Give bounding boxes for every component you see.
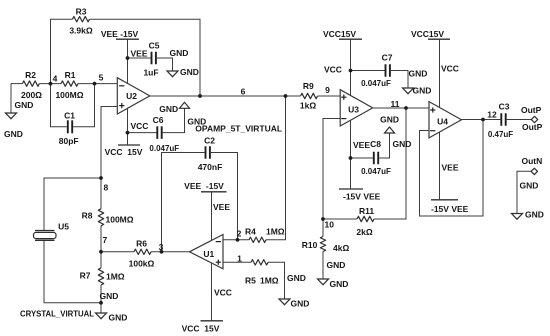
svg-text:U1: U1 (203, 249, 214, 259)
svg-text:GND: GND (15, 100, 34, 110)
wire U4 feedback loop (420, 120, 484, 217)
capacitor C5 (143, 41, 172, 78)
node 1 (237, 253, 242, 263)
svg-text:100MΩ: 100MΩ (106, 215, 134, 225)
capacitor C6 (149, 108, 184, 153)
op-amp U2 (117, 78, 150, 114)
resistor R3 (69, 7, 93, 36)
svg-text:GND: GND (393, 139, 412, 149)
svg-text:VEE: VEE (131, 48, 148, 58)
wire U3 - input to node 10 (323, 119, 340, 220)
node 6 (198, 87, 287, 98)
svg-text:VCC15V: VCC15V (411, 29, 444, 39)
svg-text:R2: R2 (25, 70, 36, 80)
svg-text:9: 9 (325, 85, 330, 95)
svg-text:GND: GND (525, 210, 544, 220)
svg-text:R11: R11 (359, 206, 374, 216)
node 4 (49, 74, 58, 86)
svg-text:12: 12 (487, 109, 497, 119)
svg-text:R8: R8 (82, 210, 93, 220)
op-amp U1 (left-pointing) (190, 235, 224, 269)
svg-text:VCC15V: VCC15V (323, 29, 356, 39)
wire node2 R4 to node6 (223, 96, 286, 240)
svg-text:10: 10 (325, 219, 335, 229)
svg-text:GND: GND (4, 129, 23, 139)
svg-text:U2: U2 (126, 91, 137, 101)
resistor R5 (245, 260, 279, 286)
wire R11 feedback (323, 108, 406, 219)
wire U3 output node 11 (372, 107, 429, 109)
svg-text:GND: GND (109, 313, 128, 323)
label OPAMP_5T_VIRTUAL (195, 123, 282, 133)
svg-text:80pF: 80pF (59, 136, 79, 146)
resistor R1 (55, 70, 83, 100)
ground at C5 (167, 48, 199, 77)
svg-text:C6: C6 (153, 115, 164, 125)
svg-text:6: 6 (241, 87, 246, 97)
capacitor C3 (488, 102, 513, 139)
wire node1 R5 to ground (223, 262, 285, 299)
power rail VEE -15V for U1 (184, 181, 230, 242)
svg-text:11: 11 (391, 99, 400, 109)
capacitor C1 (59, 111, 79, 146)
ground at C7 (403, 69, 432, 96)
resistor R9 (300, 81, 318, 111)
svg-text:U3: U3 (348, 105, 359, 115)
svg-text:C1: C1 (64, 111, 75, 121)
svg-text:VEE: VEE (353, 140, 370, 150)
ground at R5 (279, 273, 309, 309)
resistor R10 (302, 237, 350, 254)
svg-text:VCC: VCC (324, 65, 342, 75)
node 10 (321, 217, 334, 229)
ground at R10 (318, 260, 349, 289)
svg-text:0.047uF: 0.047uF (361, 167, 391, 176)
node 7 (99, 235, 107, 254)
resistor R6 (129, 239, 155, 269)
svg-text:0.47uF: 0.47uF (488, 130, 513, 139)
svg-text:VCC: VCC (131, 121, 149, 131)
crystal U5 (34, 222, 70, 241)
node 2 (236, 228, 242, 241)
svg-text:C7: C7 (382, 53, 393, 63)
svg-text:C5: C5 (149, 41, 160, 51)
svg-text:200Ω: 200Ω (21, 90, 42, 100)
svg-text:R5: R5 (245, 276, 256, 286)
svg-text:OutN: OutN (522, 156, 543, 166)
svg-text:1uF: 1uF (143, 68, 158, 78)
resistor R4 (245, 227, 285, 243)
svg-text:4kΩ: 4kΩ (333, 243, 349, 253)
power rail VEE -15V for U2 (101, 29, 151, 84)
node 5 (93, 73, 104, 86)
resistor R7 (80, 268, 125, 285)
svg-text:C2: C2 (204, 135, 215, 145)
svg-text:R1: R1 (65, 70, 76, 80)
resistor R8 (82, 209, 134, 226)
svg-text:VEE: VEE (213, 202, 230, 212)
svg-text:OutP: OutP (521, 105, 542, 115)
connector OutN (522, 156, 543, 175)
svg-text:0.047uF: 0.047uF (361, 79, 391, 88)
svg-text:3.9kΩ: 3.9kΩ (69, 26, 93, 36)
svg-text:GND: GND (100, 291, 119, 301)
svg-text:8: 8 (104, 183, 109, 193)
svg-text:100MΩ: 100MΩ (55, 90, 83, 100)
svg-text:GND: GND (380, 114, 399, 124)
svg-text:VCC: VCC (441, 64, 459, 74)
svg-text:470nF: 470nF (198, 162, 223, 172)
wire input net y84 (11, 83, 117, 85)
svg-text:R6: R6 (136, 239, 147, 249)
capacitor C2 (198, 135, 223, 172)
wire node7 to U1 output (101, 251, 190, 253)
resistor R11 (356, 206, 374, 237)
svg-text:R7: R7 (80, 271, 91, 281)
svg-text:C8: C8 (370, 139, 381, 149)
svg-text:GND: GND (287, 273, 306, 283)
svg-text:2: 2 (237, 228, 242, 238)
svg-text:GND: GND (327, 260, 346, 270)
svg-text:R3: R3 (76, 7, 87, 17)
node 12 (481, 109, 497, 121)
power rail VCC 15V for U1 (182, 263, 232, 333)
svg-text:U5: U5 (58, 222, 69, 232)
capacitor C7 (361, 53, 408, 89)
svg-text:1MΩ: 1MΩ (260, 276, 279, 286)
svg-text:7: 7 (103, 235, 108, 245)
op-amp U4 (429, 102, 462, 138)
svg-text:GND: GND (159, 104, 178, 114)
svg-text:OutP: OutP (522, 122, 543, 132)
resistor R2 (21, 70, 42, 100)
power rail VCC15V for U3 (323, 29, 385, 95)
svg-text:VCC 15V: VCC 15V (182, 323, 220, 333)
wire OutN to ground (517, 171, 531, 213)
svg-text:4: 4 (53, 74, 58, 84)
svg-text:1: 1 (237, 253, 242, 263)
svg-text:GND: GND (170, 48, 189, 58)
svg-text:GND: GND (413, 86, 432, 96)
svg-text:2kΩ: 2kΩ (356, 227, 372, 237)
wire U2 output net node 6 (150, 95, 340, 97)
svg-text:GND: GND (180, 67, 199, 77)
node 11 (391, 99, 408, 110)
svg-text:1MΩ: 1MΩ (106, 272, 125, 282)
svg-text:R9: R9 (303, 81, 314, 91)
svg-text:U4: U4 (437, 117, 448, 127)
ground (up) at C6 (159, 102, 206, 126)
svg-text:C3: C3 (499, 102, 510, 112)
op-amp U3 (340, 90, 373, 126)
wire C2 right branch to node 2 (211, 153, 238, 240)
node 3 (159, 242, 164, 254)
svg-text:VEE -15V: VEE -15V (101, 29, 139, 39)
power rail -15V VEE for U3 (339, 120, 381, 202)
wire R10 to ground (322, 219, 324, 279)
wire C1 loop (51, 84, 95, 127)
svg-text:GND: GND (520, 181, 539, 191)
svg-text:GND: GND (291, 299, 310, 309)
wire R3 feedback loop node4 to U2 output (51, 19, 201, 96)
svg-text:-15V VEE: -15V VEE (343, 192, 381, 202)
label CRYSTAL_VIRTUAL (20, 309, 94, 319)
svg-text:-15V VEE: -15V VEE (431, 204, 469, 214)
svg-text:GND: GND (409, 69, 428, 79)
svg-text:R10: R10 (302, 240, 318, 250)
capacitor C8 (361, 133, 391, 176)
ground (up) at C8 (380, 114, 411, 149)
svg-text:1kΩ: 1kΩ (300, 101, 316, 111)
svg-text:OPAMP_5T_VIRTUAL: OPAMP_5T_VIRTUAL (195, 123, 282, 133)
svg-text:VCC 15V: VCC 15V (105, 147, 143, 157)
svg-text:VEE -15V: VEE -15V (184, 181, 224, 191)
svg-text:R4: R4 (245, 227, 256, 237)
power rail VCC15V for U4 (411, 29, 459, 107)
wire C2 left branch to node 3 (162, 153, 205, 252)
node 9 (325, 85, 330, 95)
svg-text:CRYSTAL_VIRTUAL: CRYSTAL_VIRTUAL (20, 309, 94, 319)
svg-text:5: 5 (99, 73, 104, 83)
node 8 (99, 176, 108, 192)
wire U4 output node 12 (461, 119, 531, 121)
wire crystal branch (44, 178, 101, 303)
ground at OutN (512, 181, 544, 220)
svg-text:VCC: VCC (214, 287, 232, 297)
connector OutP (521, 105, 543, 132)
ground at R2 (4, 84, 33, 139)
svg-text:GND: GND (330, 279, 349, 289)
ground at R7 / crystal (96, 291, 128, 323)
svg-text:100kΩ: 100kΩ (129, 258, 155, 268)
svg-text:1MΩ: 1MΩ (266, 227, 285, 237)
power rail -15V VEE for U4 (431, 132, 469, 214)
power rail VCC 15V for U2 (105, 108, 157, 157)
wire U2 + input to node 8 column (101, 107, 117, 314)
svg-text:0.047uF: 0.047uF (149, 144, 179, 153)
svg-text:VEE: VEE (442, 163, 459, 173)
